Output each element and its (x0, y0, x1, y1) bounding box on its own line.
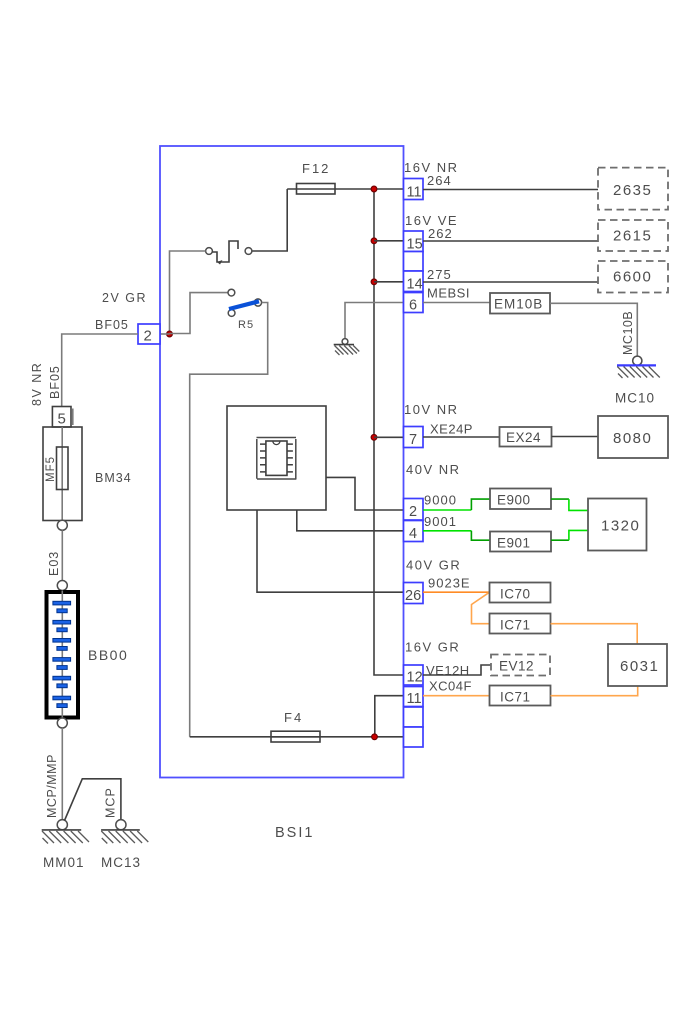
svg-text:8080: 8080 (613, 430, 652, 447)
wire pin7 row (374, 436, 404, 438)
wire branch MM01 to MC13 (65, 779, 121, 821)
vertical supply bus x374 (374, 189, 404, 675)
node circle below battery (57, 718, 67, 728)
wire pin2 to E900 (green) (423, 509, 471, 511)
microprocessor block U1 outer box (227, 406, 326, 510)
svg-text:MC13: MC13 (101, 855, 141, 870)
wire F4 row (190, 736, 404, 738)
svg-text:BSI1: BSI1 (275, 825, 314, 841)
ground MM01 hatch (42, 831, 89, 844)
connector box 2 (138, 324, 160, 344)
svg-text:262: 262 (428, 226, 453, 241)
pin 4 (9001) (404, 521, 424, 542)
wire pin7 to EX24 (423, 436, 500, 438)
svg-text:12: 12 (407, 670, 423, 686)
component 1320 (588, 499, 647, 551)
splice E901 (490, 532, 551, 552)
wire IC to pin 4 (297, 510, 404, 531)
pin 11 (264) (404, 179, 424, 200)
svg-text:EM10B: EM10B (494, 297, 543, 312)
empty pin box below 15 (404, 252, 424, 272)
wire IC71b to 6031 (orange) (551, 686, 638, 696)
pin 11b (XC04F) (404, 687, 424, 707)
wire IC to pin 26 (257, 510, 404, 592)
svg-text:9023E: 9023E (428, 576, 471, 591)
svg-text:MC10B: MC10B (621, 311, 635, 355)
svg-text:2615: 2615 (613, 228, 652, 245)
pin 6 (MEBSI) (404, 293, 424, 313)
svg-text:26: 26 (405, 588, 421, 604)
svg-text:6: 6 (409, 298, 417, 314)
node A junction dot (167, 331, 173, 337)
BSI1 control unit box (160, 146, 404, 778)
empty pin box 2 bottom (404, 727, 424, 747)
fuse F4 (271, 731, 320, 742)
thermal switch arrow tick (217, 260, 223, 265)
svg-text:BF05: BF05 (48, 365, 62, 399)
svg-text:11: 11 (407, 185, 422, 201)
svg-text:2: 2 (409, 504, 417, 520)
component 8080 (598, 416, 668, 458)
IC chip frame (257, 438, 297, 480)
svg-text:E03: E03 (47, 551, 61, 576)
wire F4 line through fuse (271, 736, 320, 738)
IC pins right (287, 444, 293, 472)
component 6031 (608, 644, 667, 686)
wire E901 to 1320 (green) (551, 539, 569, 541)
IC chip body (266, 441, 287, 475)
splice EV12 (dashed) (491, 655, 550, 676)
svg-text:2: 2 (144, 328, 152, 345)
wire branch to IC71 (orange) (472, 592, 490, 624)
wire pin15 to 2615 (423, 240, 598, 242)
splice EX24 (500, 427, 552, 447)
svg-text:11: 11 (407, 691, 422, 707)
svg-text:MEBSI: MEBSI (427, 286, 470, 301)
svg-text:F4: F4 (284, 710, 303, 725)
svg-text:E901: E901 (497, 536, 531, 551)
svg-text:1320: 1320 (601, 518, 640, 535)
wire E03 (61, 530, 63, 580)
svg-text:EV12: EV12 (499, 659, 534, 674)
ground node MM01 circle (57, 820, 67, 830)
svg-text:MCP: MCP (104, 787, 118, 818)
relay R5 blue blade (229, 301, 259, 309)
wire IC71 to 6031 (orange) (551, 624, 638, 644)
svg-text:XC04F: XC04F (429, 679, 472, 694)
svg-text:MM01: MM01 (43, 855, 85, 870)
junction dot F4/XC04F (372, 734, 378, 740)
svg-text:XE24P: XE24P (430, 422, 473, 437)
svg-text:E900: E900 (497, 493, 531, 508)
svg-text:10V NR: 10V NR (404, 402, 459, 417)
wire switch left to junction A (170, 251, 206, 334)
battery BB00 plates (53, 601, 71, 707)
component 2635 (dashed) (598, 168, 668, 210)
svg-text:5: 5 (58, 411, 66, 428)
pin 7 (XE24P) (404, 427, 424, 448)
component 6600 (dashed) (598, 261, 668, 293)
wire R5 common down-left-down to F4 row (190, 303, 268, 737)
pin 14 (275) (404, 271, 424, 292)
junction dot bus/pin15 row (371, 238, 377, 244)
wire MEBSI pin6 to internal ground (345, 303, 404, 339)
pin 2 (9000) (404, 499, 424, 521)
ground node MC10 circle (633, 356, 642, 365)
wire through battery (61, 591, 63, 719)
splice EM10B (490, 293, 550, 314)
wire XC04F drop to F4 (375, 696, 404, 737)
node circle above battery (57, 581, 67, 591)
svg-text:40V NR: 40V NR (406, 462, 461, 477)
ground MM01 bar (42, 829, 81, 831)
svg-text:14: 14 (407, 277, 423, 293)
wire F12 row to pin 11 (287, 188, 403, 190)
relay R5 contact circles (228, 289, 235, 296)
wire pin11 to 2635 (423, 189, 598, 191)
svg-text:BB00: BB00 (88, 647, 128, 663)
wire EM10B to ground MC10 (550, 303, 637, 356)
fuse F12 (297, 184, 336, 195)
svg-text:4: 4 (409, 526, 417, 542)
svg-text:BF05: BF05 (95, 318, 129, 332)
empty pin box 1 bottom (404, 707, 424, 727)
box 5 side tick (72, 409, 74, 426)
pin 12 (VE12H) (404, 665, 424, 685)
ground MC13 bar (101, 829, 140, 831)
wire E900 to 1320 (green) (551, 498, 569, 500)
wire EX24 to 8080 (552, 436, 599, 438)
battery BB00 case (47, 592, 79, 718)
junction dot bus/pin14 row (371, 279, 377, 285)
wire box2 left and down to fuse 5 (62, 334, 138, 407)
internal ground node circle (342, 339, 348, 345)
svg-text:MC10: MC10 (615, 391, 655, 406)
svg-text:264: 264 (427, 173, 452, 188)
splice E900 (490, 489, 551, 510)
wire junction A to R5 top contact (170, 293, 228, 334)
svg-text:IC71: IC71 (500, 690, 531, 705)
junction dot bus/pin7 row (371, 434, 377, 440)
wire MCP/MMP (61, 728, 63, 820)
wire pin4 to E901 (green) (423, 530, 471, 532)
pin 26 (9023E) (404, 583, 424, 604)
ground node MC13 circle (116, 820, 126, 830)
connector box 5 (52, 407, 71, 428)
component 2615 (dashed) (598, 220, 668, 251)
wire IC to pin 2 (326, 477, 404, 510)
pin 15 (262) (404, 231, 424, 252)
fuse MF5 element (57, 447, 69, 490)
wire through MF5 (61, 427, 63, 521)
thermal switch upper contact circles (206, 248, 213, 255)
splice IC71b (490, 686, 551, 706)
svg-text:IC70: IC70 (500, 587, 531, 602)
svg-text:R5: R5 (238, 319, 254, 331)
node circle below BM34 (57, 520, 67, 530)
wire pin26 to IC70 (orange) (423, 591, 490, 593)
svg-text:BM34: BM34 (95, 471, 132, 485)
internal ground hatch (335, 346, 360, 356)
wire pin12 to EV12 (423, 665, 491, 675)
svg-text:2635: 2635 (613, 182, 652, 199)
svg-text:275: 275 (427, 267, 452, 282)
svg-text:8V NR: 8V NR (30, 362, 44, 406)
ground MC10 hatch (617, 367, 660, 379)
svg-text:7: 7 (409, 432, 417, 448)
svg-text:IC71: IC71 (500, 618, 531, 633)
svg-text:F12: F12 (302, 161, 330, 176)
svg-text:6031: 6031 (620, 658, 659, 675)
svg-text:EX24: EX24 (506, 430, 541, 445)
wire pin11b to IC71b (orange) (423, 695, 490, 697)
wire F12 left drop (252, 189, 287, 251)
svg-text:15: 15 (407, 237, 423, 253)
thermal switch blade path (212, 241, 238, 262)
svg-text:MCP/MMP: MCP/MMP (45, 754, 59, 818)
svg-text:40V GR: 40V GR (406, 558, 461, 573)
ground MC13 hatch (101, 831, 148, 844)
wire pin15 row (374, 240, 404, 242)
svg-text:MF5: MF5 (45, 456, 57, 482)
maxi fuse MF5 outer box BM34 (43, 427, 82, 521)
wire pin14 to 6600 (423, 281, 598, 283)
internal ground bar (334, 344, 354, 346)
svg-text:9000: 9000 (424, 493, 457, 508)
splice IC71 (490, 614, 551, 634)
svg-text:6600: 6600 (613, 269, 652, 286)
wire pin6 to EM10B (423, 302, 490, 304)
svg-text:2V GR: 2V GR (102, 291, 147, 305)
IC pins left (260, 444, 266, 472)
junction dot bus/pin11 row (371, 186, 377, 192)
svg-text:9001: 9001 (424, 514, 457, 529)
wire pin14 row (374, 281, 404, 283)
IC notch (273, 441, 280, 445)
ground MC10 blue bar (617, 364, 656, 366)
svg-text:16V GR: 16V GR (405, 640, 460, 655)
splice IC70 (490, 583, 551, 603)
wire box2 to junction A (160, 333, 170, 335)
